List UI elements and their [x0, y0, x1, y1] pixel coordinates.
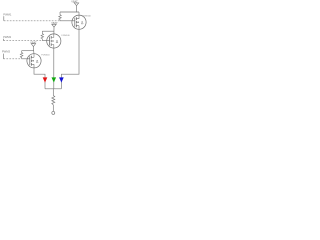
probe marker green	[52, 77, 57, 82]
transistor Q1 stubs and pins	[76, 12, 79, 29]
resistor R2 gate pull-up (zigzag)	[41, 31, 44, 40]
svg-text:PWM3: PWM3	[2, 50, 11, 54]
transistor Q2 circle	[47, 34, 61, 48]
wire VDD3 stem	[32, 47, 35, 54]
transistor Q1 body arrow	[77, 21, 79, 23]
resistor R4 load (zigzag)	[52, 96, 55, 105]
wire dashed gate line 3	[3, 58, 21, 60]
transistor Q3 body arrow	[32, 60, 34, 62]
wire Q3 drain to bus	[34, 68, 45, 89]
wire gate 3 solid	[22, 58, 30, 60]
wire top rail 1	[60, 11, 77, 13]
wire top rail 3	[22, 50, 34, 52]
wire Q2 drain to bus	[53, 48, 55, 89]
transistor Q3 channel segments	[30, 56, 32, 66]
transistor Q2 channel segments	[50, 36, 52, 46]
transistor Q2 body arrow	[52, 40, 54, 42]
transistor Q2 stubs and pins	[51, 34, 54, 48]
wire bus to resistor	[52, 89, 54, 96]
wire gate 1 solid	[60, 20, 75, 22]
wire label tick 1	[3, 16, 5, 21]
power flag VDD1 triangle	[74, 3, 78, 6]
transistor Q1 body diode	[81, 22, 83, 24]
wire label tick 3	[2, 54, 4, 59]
transistor Q3 body diode	[36, 60, 38, 62]
transistor Q1 channel segments	[75, 17, 77, 27]
power flag VDD3 triangle	[31, 44, 35, 47]
wire VDD1 stem	[77, 6, 80, 12]
probe marker red	[43, 77, 48, 82]
probe marker blue	[59, 77, 64, 82]
wire dashed gate line 2	[3, 40, 42, 42]
transistor Q3 gate bar	[29, 56, 31, 65]
wire Q1 drain to bus	[61, 29, 79, 89]
svg-text:FDN340: FDN340	[83, 15, 92, 17]
wire top rail 2	[42, 30, 54, 32]
transistor Q2 body diode	[56, 41, 58, 43]
wire resistor to terminal	[52, 105, 54, 112]
wire VDD2 stem	[53, 27, 55, 34]
wire gate 2 solid	[42, 40, 49, 42]
resistor R1 gate pull-up (zigzag)	[59, 12, 62, 21]
transistor Q1 gate bar	[74, 18, 76, 27]
svg-text:PWM2: PWM2	[3, 35, 12, 39]
transistor Q3 circle	[27, 54, 41, 68]
svg-text:FDN340: FDN340	[62, 35, 71, 37]
wire bottom bus	[45, 88, 61, 90]
transistor Q2 gate bar	[49, 37, 51, 46]
resistor R3 gate pull-up (zigzag)	[20, 51, 23, 59]
transistor Q1 circle	[72, 15, 86, 29]
wire label tick 2	[2, 39, 4, 41]
power flag VDD2 triangle	[52, 24, 56, 27]
svg-text:PWM1: PWM1	[3, 12, 12, 16]
svg-text:FDN340: FDN340	[41, 55, 50, 57]
transistor Q3 stubs and pins	[31, 54, 34, 68]
terminal open circle	[52, 111, 55, 114]
wire dashed gate line 1	[4, 20, 60, 22]
